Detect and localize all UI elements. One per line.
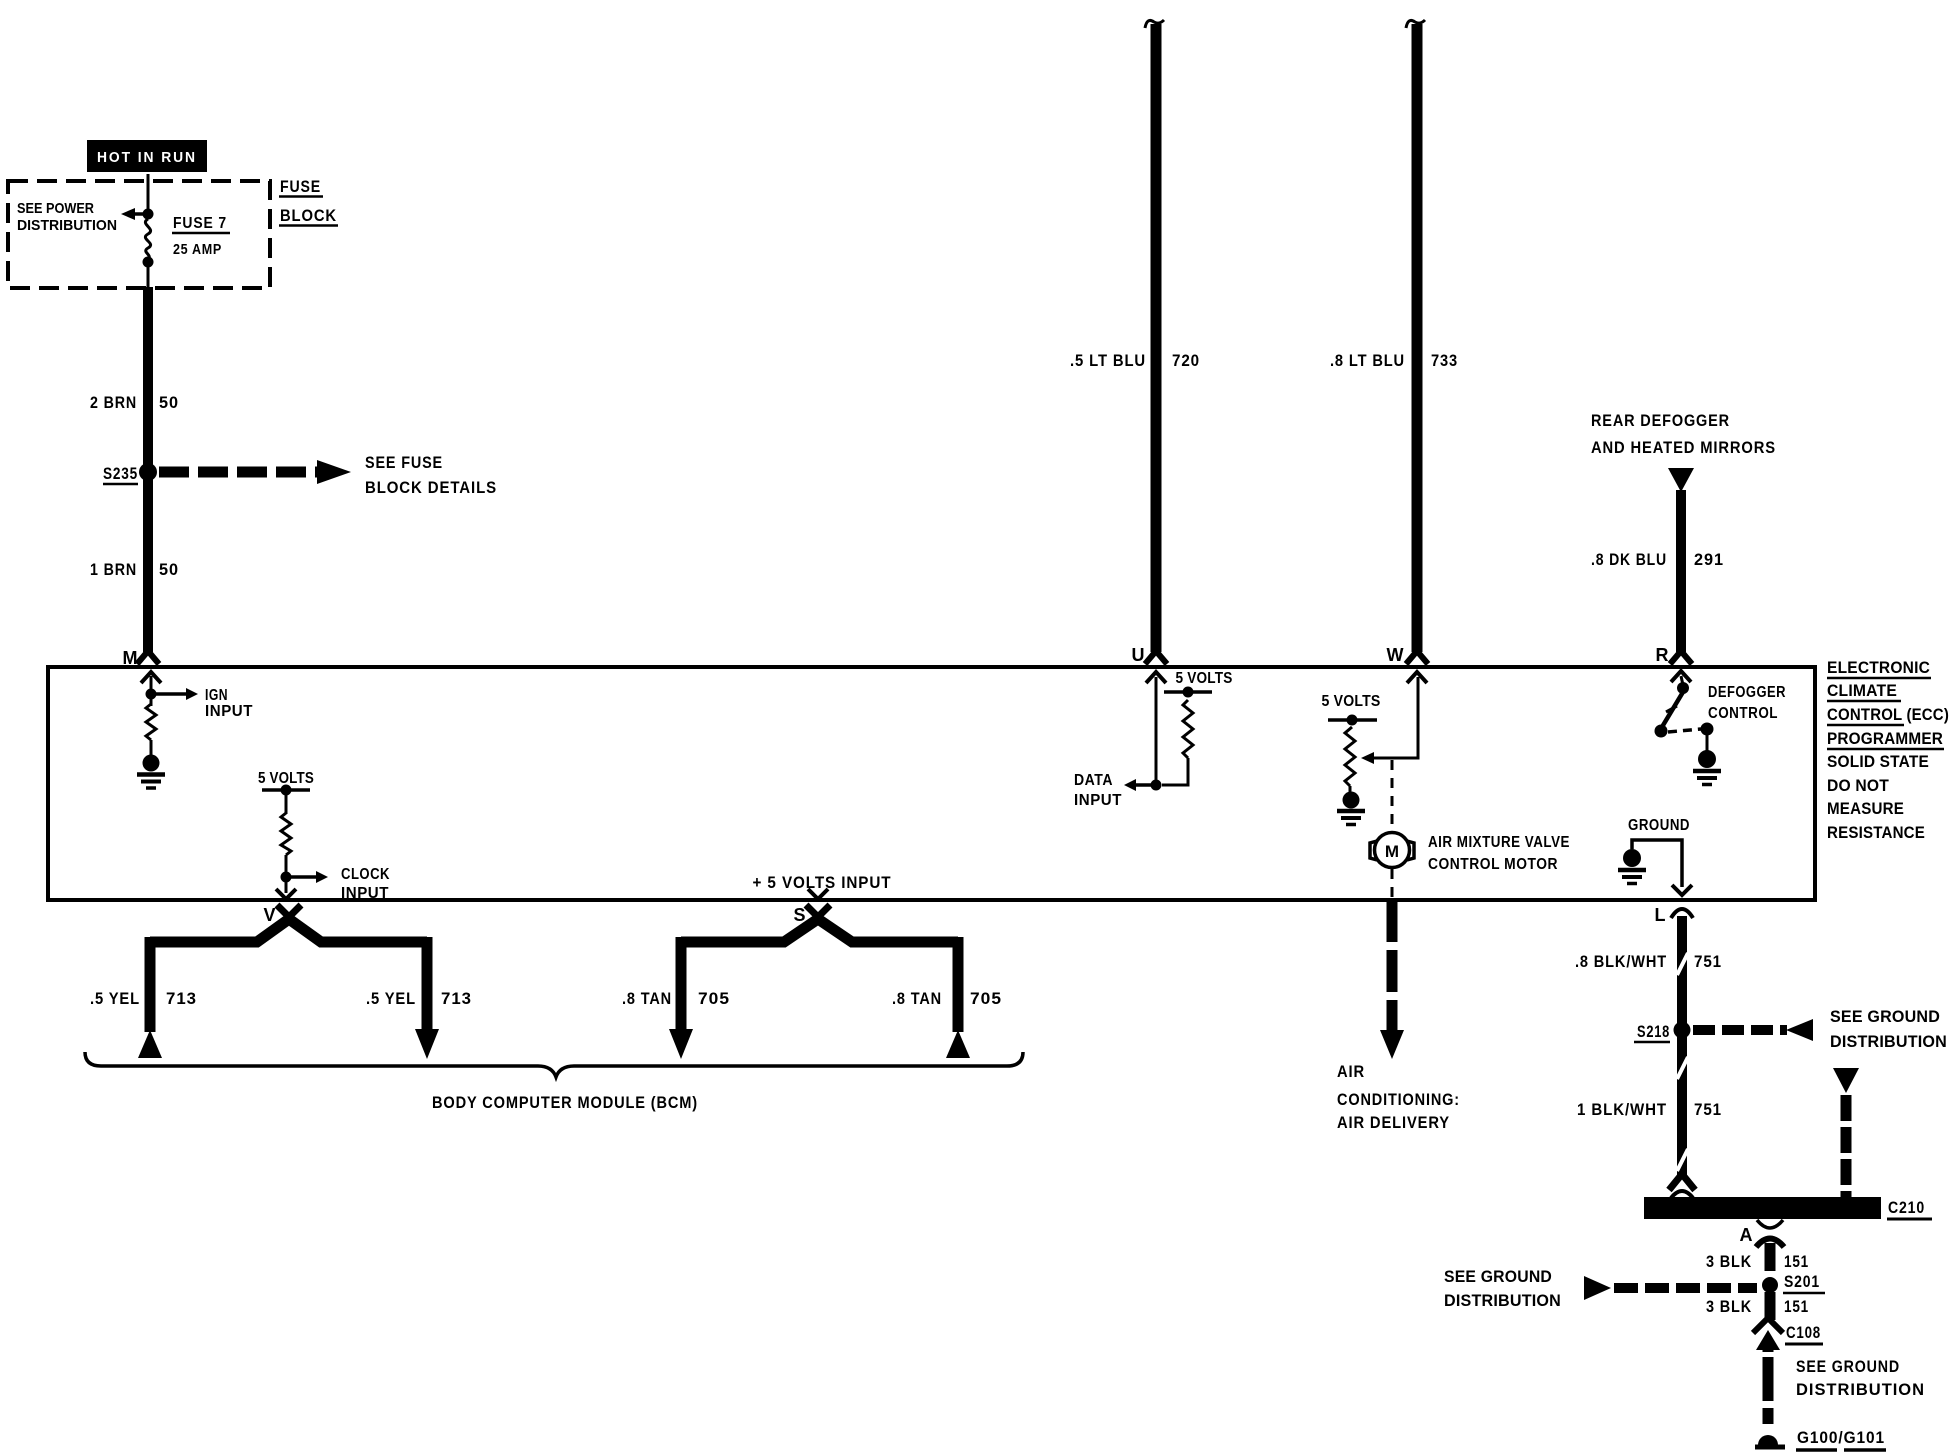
pin M entry chevron <box>141 672 161 683</box>
ground G100/G101 <box>1755 1428 1886 1450</box>
svg-text:FUSE 7: FUSE 7 <box>173 215 227 232</box>
svg-text:SEE GROUND: SEE GROUND <box>1796 1357 1900 1376</box>
IGN INPUT arrow <box>151 687 253 720</box>
wire .8 LT BLU 733 <box>1330 20 1458 652</box>
wire resistor to ground <box>1349 786 1352 793</box>
BCM branch bus from S <box>681 919 958 942</box>
pin W entry chevron <box>1407 672 1427 683</box>
svg-text:1 BLK/WHT: 1 BLK/WHT <box>1577 1100 1667 1119</box>
svg-text:25 AMP: 25 AMP <box>173 241 222 258</box>
wire U to data node <box>1155 677 1158 785</box>
node: 5 VOLTS (clock) <box>258 770 314 796</box>
svg-text:SEE GROUND: SEE GROUND <box>1830 1008 1940 1026</box>
dashed wire to G100/G101 <box>1768 1340 1925 1424</box>
svg-text:SOLID STATE: SOLID STATE <box>1827 753 1929 771</box>
svg-text:CONTROL: CONTROL <box>1708 705 1778 722</box>
svg-text:INPUT: INPUT <box>341 885 389 902</box>
svg-text:CONTROL (ECC): CONTROL (ECC) <box>1827 706 1949 724</box>
wire switch to ground <box>1706 734 1709 751</box>
svg-text:720: 720 <box>1172 351 1200 370</box>
svg-text:AIR DELIVERY: AIR DELIVERY <box>1337 1113 1450 1132</box>
svg-text:+ 5 VOLTS INPUT: + 5 VOLTS INPUT <box>753 873 892 892</box>
svg-text:S201: S201 <box>1784 1272 1820 1291</box>
resistor (IGN pull-down) <box>146 704 156 740</box>
dashed mechanical link (upper) <box>1391 760 1394 831</box>
CLOCK INPUT arrow <box>286 866 390 902</box>
node: fuse top junction <box>143 209 154 220</box>
svg-text:DISTRIBUTION: DISTRIBUTION <box>1444 1292 1561 1310</box>
svg-text:ELECTRONIC: ELECTRONIC <box>1827 659 1930 677</box>
wire 5V to resistor <box>285 790 288 814</box>
svg-text:705: 705 <box>970 989 1002 1008</box>
node: 5 VOLTS (data) <box>1164 670 1233 698</box>
defogger control switch <box>1655 682 1787 738</box>
svg-text:GROUND: GROUND <box>1628 817 1690 834</box>
splice S201 <box>1762 1272 1825 1293</box>
wire .8 BLK/WHT 751 <box>1575 916 1722 1178</box>
svg-text:C210: C210 <box>1888 1198 1925 1217</box>
svg-text:AIR MIXTURE VALVE: AIR MIXTURE VALVE <box>1428 834 1570 851</box>
svg-text:BLOCK: BLOCK <box>280 206 337 225</box>
svg-text:INPUT: INPUT <box>205 703 253 720</box>
svg-text:2 BRN: 2 BRN <box>90 393 137 412</box>
svg-text:INPUT: INPUT <box>1074 792 1122 809</box>
connector flare at pin M <box>123 648 160 668</box>
see power distribution arrow <box>17 200 148 234</box>
DATA INPUT arrow <box>1074 772 1156 809</box>
svg-text:151: 151 <box>1784 1252 1809 1271</box>
svg-text:CLOCK: CLOCK <box>341 866 390 883</box>
svg-text:50: 50 <box>159 560 179 579</box>
wire .8 TAN 705 (right) <box>892 937 1002 1058</box>
svg-text:S218: S218 <box>1637 1022 1670 1041</box>
svg-text:SEE POWER: SEE POWER <box>17 200 94 217</box>
wire 1 BRN 50 <box>90 476 179 652</box>
resistor (data pull-up) <box>1183 700 1193 758</box>
svg-text:713: 713 <box>441 989 472 1008</box>
svg-text:705: 705 <box>698 989 730 1008</box>
dashed arrow from ground distribution (S218) <box>1693 1008 1947 1051</box>
svg-text:3 BLK: 3 BLK <box>1706 1297 1752 1316</box>
wire .5 YEL 713 (left) <box>90 937 197 1058</box>
node: IGN input junction <box>146 689 157 700</box>
svg-text:RESISTANCE: RESISTANCE <box>1827 824 1925 842</box>
dashed arrow to fuse block details <box>159 453 497 497</box>
resistor (mixture potentiometer) <box>1345 727 1355 786</box>
svg-text:CONTROL MOTOR: CONTROL MOTOR <box>1428 856 1558 873</box>
node: data junction <box>1151 780 1162 791</box>
pin U entry chevron <box>1146 672 1166 683</box>
fuse F7 element <box>145 219 150 259</box>
ECC programmer name block <box>1827 659 1949 842</box>
ECC programmer box outline <box>48 667 1815 900</box>
wire R to switch <box>1681 676 1683 685</box>
ground (mixture internal) <box>1337 792 1365 825</box>
wire .5 YEL 713 (right) <box>366 937 472 1059</box>
svg-text:3 BLK: 3 BLK <box>1706 1252 1752 1271</box>
svg-text:CLIMATE: CLIMATE <box>1827 682 1897 700</box>
svg-text:IGN: IGN <box>205 687 228 704</box>
splice S218 <box>1634 1022 1691 1043</box>
svg-text:.8 DK BLU: .8 DK BLU <box>1591 550 1667 569</box>
fuse block dashed boundary <box>8 181 270 288</box>
ground (defogger switch) <box>1693 750 1721 785</box>
dashed mechanical link (lower) <box>1391 869 1394 899</box>
svg-text:.8 TAN: .8 TAN <box>892 989 942 1008</box>
svg-text:REAR DEFOGGER: REAR DEFOGGER <box>1591 411 1730 430</box>
svg-text:1 BRN: 1 BRN <box>90 560 137 579</box>
svg-text:SEE FUSE: SEE FUSE <box>365 453 443 472</box>
svg-text:DO NOT: DO NOT <box>1827 777 1889 795</box>
ground (programmer internal) <box>1618 849 1646 884</box>
pin A socket under C210 <box>1740 1220 1785 1247</box>
ground (IGN internal) <box>137 755 165 789</box>
svg-text:.5 YEL: .5 YEL <box>366 989 416 1008</box>
pin L exit chevron <box>1655 885 1693 925</box>
connector pin into C210 <box>1669 1174 1695 1198</box>
connector flare at pin R <box>1656 645 1693 665</box>
wiper arrow into potentiometer <box>1361 752 1374 764</box>
connector X at V <box>277 905 301 929</box>
svg-text:751: 751 <box>1694 952 1722 971</box>
fuse block name label <box>279 177 338 226</box>
svg-text:.5 LT BLU: .5 LT BLU <box>1070 351 1146 370</box>
svg-text:SEE GROUND: SEE GROUND <box>1444 1268 1552 1286</box>
svg-text:CONDITIONING:: CONDITIONING: <box>1337 1090 1460 1109</box>
svg-text:BODY COMPUTER MODULE (BCM): BODY COMPUTER MODULE (BCM) <box>432 1093 698 1112</box>
svg-text:AIR: AIR <box>1337 1062 1365 1081</box>
svg-text:DATA: DATA <box>1074 772 1113 789</box>
pin R entry chevron <box>1671 671 1691 682</box>
svg-text:751: 751 <box>1694 1100 1722 1119</box>
svg-text:FUSE: FUSE <box>280 177 321 196</box>
svg-text:V: V <box>263 905 276 925</box>
wire resistor to ground <box>150 740 153 756</box>
pin V exit chevron <box>263 889 296 925</box>
svg-text:BLOCK DETAILS: BLOCK DETAILS <box>365 478 497 497</box>
svg-text:AND HEATED MIRRORS: AND HEATED MIRRORS <box>1591 438 1776 457</box>
svg-text:DISTRIBUTION: DISTRIBUTION <box>1830 1033 1947 1051</box>
svg-text:C108: C108 <box>1786 1323 1821 1342</box>
svg-text:291: 291 <box>1694 550 1724 569</box>
svg-text:R: R <box>1656 645 1670 665</box>
wire .8 DK BLU 291 <box>1591 490 1724 652</box>
wire 3 BLK 151 (upper) <box>1706 1243 1809 1271</box>
svg-text:L: L <box>1655 905 1667 925</box>
svg-text:W: W <box>1387 645 1405 665</box>
svg-text:.8 TAN: .8 TAN <box>622 989 672 1008</box>
wire resistor to data junction <box>1162 758 1188 785</box>
svg-text:5 VOLTS: 5 VOLTS <box>1322 693 1381 710</box>
connector C108 <box>1753 1318 1823 1350</box>
wire fuse to block edge <box>147 266 150 288</box>
svg-text:A: A <box>1740 1225 1754 1245</box>
dashed branch from ground distribution into C210 <box>1833 1068 1859 1197</box>
svg-text:DISTRIBUTION: DISTRIBUTION <box>17 217 117 234</box>
svg-text:U: U <box>1132 645 1146 665</box>
svg-text:.5 YEL: .5 YEL <box>90 989 140 1008</box>
wire .8 TAN 705 (left) <box>622 937 730 1059</box>
splice S235 <box>103 463 157 484</box>
svg-text:733: 733 <box>1431 351 1458 370</box>
wire M to IGN node <box>150 676 153 706</box>
BCM branch bus from V <box>150 919 427 942</box>
svg-text:713: 713 <box>166 989 197 1008</box>
connector C210 <box>1644 1197 1932 1219</box>
connector flare at pin W <box>1387 645 1429 665</box>
svg-text:.8 LT BLU: .8 LT BLU <box>1330 351 1405 370</box>
HOT IN RUN label box <box>87 140 207 172</box>
dashed output to air delivery <box>1337 900 1460 1132</box>
svg-text:S235: S235 <box>103 464 138 483</box>
wire from HOT IN RUN into fuse block <box>147 174 150 214</box>
wire resistor to pin V <box>285 855 288 893</box>
svg-text:G100/G101: G100/G101 <box>1797 1428 1885 1447</box>
svg-text:.8 BLK/WHT: .8 BLK/WHT <box>1575 952 1667 971</box>
svg-text:5 VOLTS: 5 VOLTS <box>258 770 314 787</box>
svg-text:DEFOGGER: DEFOGGER <box>1708 684 1786 701</box>
node: fuse bottom junction <box>143 257 154 268</box>
svg-text:HOT IN RUN: HOT IN RUN <box>97 150 197 166</box>
svg-text:PROGRAMMER: PROGRAMMER <box>1827 730 1943 748</box>
svg-text:50: 50 <box>159 393 179 412</box>
node: 5 VOLTS (mixture) <box>1322 693 1381 726</box>
FUSE 7 / 25 AMP value label <box>172 215 230 258</box>
wire W to wiper <box>1374 677 1418 758</box>
brace: body computer module <box>85 1052 1023 1112</box>
node: clock junction <box>281 872 292 883</box>
wire 2 BRN 50 <box>90 287 179 469</box>
connector X at S <box>806 905 830 929</box>
svg-text:DISTRIBUTION: DISTRIBUTION <box>1796 1380 1925 1399</box>
pin S exit chevron <box>793 889 828 925</box>
connector socket at L <box>1671 909 1693 918</box>
svg-text:M: M <box>1385 842 1399 861</box>
dashed arrow from ground distribution (S201) <box>1444 1268 1757 1310</box>
svg-text:5 VOLTS: 5 VOLTS <box>1176 670 1233 687</box>
GROUND internal circuit <box>1628 817 1690 887</box>
resistor (clock pull-up) <box>281 813 291 855</box>
wire .5 LT BLU 720 <box>1070 20 1200 652</box>
wire 1 BLK/WHT 751 label <box>1577 1100 1722 1119</box>
svg-text:MEASURE: MEASURE <box>1827 800 1904 818</box>
svg-text:151: 151 <box>1784 1297 1809 1316</box>
wire 3 BLK 151 (lower) <box>1706 1292 1809 1320</box>
motor M1: air mixture valve control motor <box>1370 833 1570 874</box>
connector flare at pin U <box>1132 645 1168 665</box>
rear defogger feed label <box>1591 411 1776 492</box>
